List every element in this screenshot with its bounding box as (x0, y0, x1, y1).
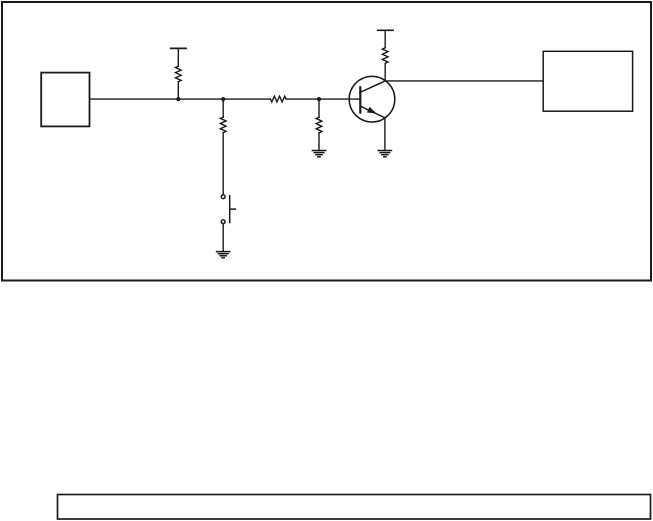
ground (below SW1) (217, 252, 230, 258)
block U1 (left box) (41, 73, 89, 127)
wire: collector to block U2 (385, 80, 543, 82)
node A (junction dot at R1 / main wire) (176, 97, 180, 101)
ground (below R4) (312, 151, 325, 157)
transistor Q1 (NPN) (349, 76, 395, 122)
caption box (bottom) (58, 495, 651, 520)
power tap V+ (above R1) (171, 48, 186, 66)
ground (below Q1 emitter) (378, 151, 391, 157)
resistor R4 (base to ground) (316, 99, 322, 150)
wire: resistor R3 right lead to transistor base (286, 98, 360, 100)
block U2 (right box) (543, 51, 632, 111)
power tap V+ (above R5) (378, 30, 393, 48)
wire: emitter to ground (384, 118, 386, 151)
wire: switch SW1 to ground (222, 224, 224, 252)
resistor R5 (collector load) (382, 48, 388, 81)
switch SW1 (push-button) (221, 195, 235, 224)
node B (junction dot at R2 branch) (221, 97, 225, 101)
resistor R3 (series, horizontal) (270, 96, 286, 102)
node C (junction dot at R4 branch) (317, 97, 321, 101)
wire: R2 to switch SW1 (222, 133, 224, 195)
wire: U1 output to resistor R3 left lead (90, 98, 271, 100)
resistor R2 (to switch) (220, 99, 226, 133)
resistor R1 (pull-up) (175, 66, 181, 99)
